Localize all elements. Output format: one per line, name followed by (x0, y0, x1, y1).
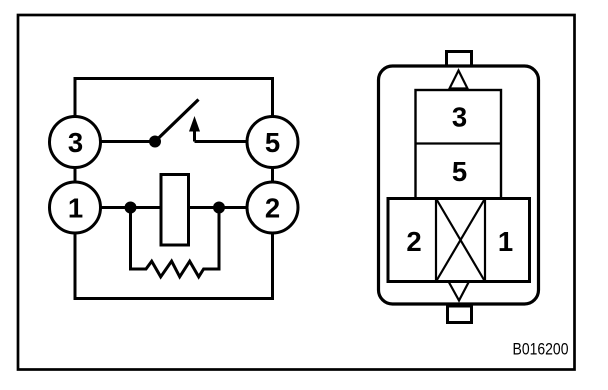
svg-text:1: 1 (68, 192, 83, 223)
svg-text:3: 3 (452, 102, 467, 133)
svg-text:B016200: B016200 (513, 339, 569, 358)
svg-text:5: 5 (452, 156, 467, 187)
svg-text:5: 5 (265, 127, 280, 158)
svg-text:1: 1 (498, 226, 513, 257)
svg-text:2: 2 (265, 192, 280, 223)
svg-text:3: 3 (68, 127, 83, 158)
svg-text:2: 2 (406, 226, 421, 257)
